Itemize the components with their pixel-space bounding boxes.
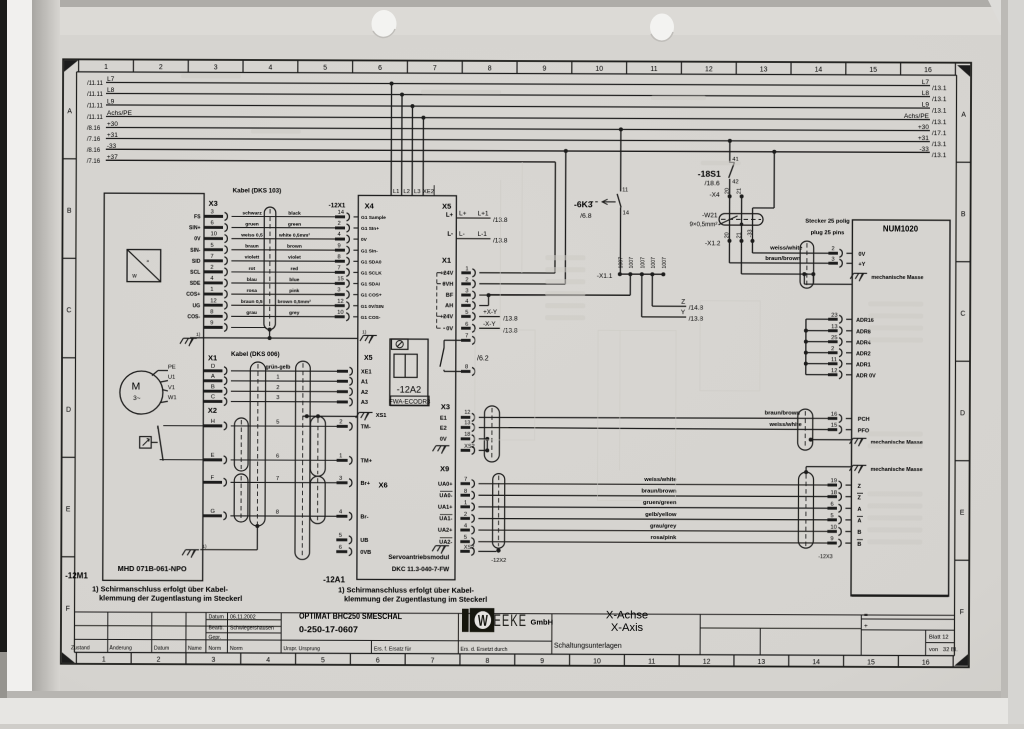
svg-text:/6.2: /6.2 — [477, 355, 489, 362]
wire X3 pin 12 braun 0,5 to X4 G1 0V/SIN — [193, 298, 385, 310]
mechanische Masse mid — [850, 438, 923, 446]
svg-text:2: 2 — [831, 246, 834, 252]
svg-text:/11.11: /11.11 — [87, 81, 103, 87]
svg-text:8: 8 — [465, 364, 468, 370]
pin X3 XS2 shield — [461, 439, 490, 455]
svg-text:L7: L7 — [922, 79, 930, 86]
cable screen X2 pair 1 — [234, 418, 248, 471]
wire BF junction to AH — [479, 293, 630, 306]
dashed link X1 pins — [437, 273, 446, 328]
svg-text:0-250-17-0607: 0-250-17-0607 — [299, 624, 358, 634]
svg-text:TM+: TM+ — [361, 458, 373, 464]
svg-text:AH: AH — [445, 303, 453, 309]
svg-text:/11.11: /11.11 — [87, 103, 103, 109]
equals plus cell — [864, 612, 868, 630]
svg-text:brown 0,5mm²: brown 0,5mm² — [278, 299, 312, 305]
svg-text:-12A1: -12A1 — [323, 575, 345, 584]
svg-text:violett: violett — [245, 255, 260, 261]
wire temp sensor to X2 H and E — [158, 426, 204, 460]
svg-text:M: M — [132, 381, 141, 393]
wire X2 F to servo Br+ — [203, 475, 371, 487]
pin X3.18 0V — [440, 432, 489, 443]
svg-text:Bearb.: Bearb. — [208, 625, 223, 631]
punch hole right — [650, 14, 674, 41]
cable screen at NUM PCH PFO — [798, 409, 852, 450]
svg-text:5: 5 — [210, 243, 213, 249]
svg-text:G1 SIn+: G1 SIn+ — [361, 226, 379, 232]
svg-text:Br-: Br- — [360, 514, 368, 520]
svg-text:6: 6 — [378, 65, 382, 72]
svg-text:XE1: XE1 — [361, 369, 372, 375]
svg-text:+30: +30 — [107, 121, 118, 128]
svg-text:XE2: XE2 — [423, 189, 434, 195]
cable screen at NUM pins 2 3 — [800, 241, 814, 288]
svg-text:9: 9 — [337, 243, 340, 249]
svg-text:G1 COS+: G1 COS+ — [361, 293, 382, 299]
wire X2 E to servo TM+ — [203, 453, 373, 465]
svg-text:/7.16: /7.16 — [87, 137, 101, 143]
svg-text:X4: X4 — [365, 201, 375, 210]
svg-text:4: 4 — [266, 657, 270, 664]
svg-text:1): 1) — [202, 544, 207, 550]
svg-text:-12M1: -12M1 — [65, 571, 88, 580]
svg-text:A3: A3 — [361, 400, 368, 406]
drawing frame outer border — [61, 59, 971, 667]
wire shield 21 to masse — [741, 241, 852, 284]
bus line +37 — [87, 154, 556, 167]
svg-text:16: 16 — [831, 412, 837, 418]
svg-text:G: G — [210, 509, 215, 515]
svg-text:X1: X1 — [208, 353, 217, 362]
svg-text:Ers. d. Ersetzt durch: Ers. d. Ersetzt durch — [460, 647, 507, 653]
sheet number Blatt 12 von 32 — [929, 635, 958, 654]
svg-text:1: 1 — [210, 287, 213, 293]
svg-text:XS2: XS2 — [464, 545, 475, 551]
svg-text:braun: braun — [245, 244, 259, 250]
svg-text:6: 6 — [376, 657, 380, 664]
svg-text:42: 42 — [732, 179, 738, 185]
svg-text:16: 16 — [924, 67, 932, 74]
svg-text:SIN+: SIN+ — [189, 225, 201, 231]
svg-text:C: C — [211, 394, 215, 400]
pin NUM 2 ADR2 — [804, 346, 871, 357]
svg-text:F: F — [960, 609, 964, 616]
svg-text:1): 1) — [362, 329, 367, 335]
svg-text:12: 12 — [210, 298, 216, 304]
svg-text:2: 2 — [157, 657, 161, 664]
svg-text:Kabel (DKS 103): Kabel (DKS 103) — [233, 187, 282, 194]
svg-text:7: 7 — [433, 65, 437, 72]
svg-text:13: 13 — [757, 659, 765, 666]
svg-text:5: 5 — [339, 533, 342, 539]
wire X2 G to servo Br- — [203, 509, 369, 521]
svg-text:L8: L8 — [922, 90, 930, 97]
svg-text:Schwiegershausen: Schwiegershausen — [230, 625, 274, 631]
svg-text:D: D — [211, 364, 215, 370]
svg-text:F: F — [66, 606, 70, 613]
svg-text:L+1: L+1 — [478, 210, 489, 217]
temperature sensor — [140, 426, 164, 461]
svg-text:0V: 0V — [440, 437, 447, 443]
terminal -X1.2 pins 20 21 -33 — [705, 196, 755, 247]
svg-text:/8.16: /8.16 — [87, 126, 101, 132]
ground X3 0V internal — [433, 446, 450, 454]
svg-text:7: 7 — [337, 265, 340, 271]
cable -W21 9x0,5mm2 — [689, 212, 763, 228]
svg-text:3: 3 — [276, 395, 279, 401]
svg-text:10: 10 — [337, 310, 343, 316]
svg-text:G1 0V/SIN: G1 0V/SIN — [361, 304, 384, 310]
pin NUM 15 PFO — [828, 423, 870, 435]
scan bleed-through artifacts — [474, 162, 760, 501]
title block — [74, 612, 954, 656]
svg-text:Z: Z — [681, 299, 685, 306]
svg-text:14: 14 — [812, 659, 820, 666]
svg-text:EEKE: EEKE — [493, 612, 527, 631]
wire X3 pin 3 schwarz to X4 G1 Sample — [194, 209, 386, 221]
svg-text:pink: pink — [289, 288, 299, 294]
svg-text:blue: blue — [289, 277, 299, 283]
pin X6.6 0VB — [336, 545, 371, 556]
svg-text:+30: +30 — [918, 124, 929, 131]
svg-text:10: 10 — [595, 66, 603, 73]
svg-text:-12X3: -12X3 — [818, 554, 832, 560]
svg-text:brown: brown — [287, 244, 302, 250]
svg-text:1007: 1007 — [662, 257, 668, 269]
motor M 3~ — [120, 371, 163, 414]
svg-text:klemmung der Zugentlastung im: klemmung der Zugentlastung im Steckerl — [344, 594, 487, 604]
svg-text:MHD 071B-061-NPO: MHD 071B-061-NPO — [118, 564, 187, 573]
svg-text:Stecker 25 polig: Stecker 25 polig — [805, 219, 850, 225]
svg-text:7: 7 — [431, 658, 435, 665]
svg-text:Änderung: Änderung — [109, 644, 132, 651]
svg-text:3: 3 — [337, 288, 340, 294]
wire motor PE lead — [152, 371, 168, 403]
svg-text:6: 6 — [276, 454, 279, 460]
svg-text:-12X2: -12X2 — [491, 558, 506, 564]
svg-text:/13.1: /13.1 — [932, 96, 947, 103]
svg-text:2: 2 — [831, 346, 834, 352]
svg-text:/13.1: /13.1 — [932, 108, 947, 115]
svg-text:UA1+: UA1+ — [438, 505, 453, 511]
column scale top 1-16 — [104, 64, 932, 74]
svg-text:1: 1 — [464, 500, 467, 506]
svg-text:2: 2 — [465, 277, 468, 283]
svg-text:A2: A2 — [361, 390, 368, 396]
pin X1.5 +24V — [440, 310, 475, 321]
svg-text:violet: violet — [288, 255, 301, 261]
pin NUM 3 +Y — [828, 257, 865, 268]
svg-text:6: 6 — [830, 502, 833, 508]
svg-text:5: 5 — [323, 65, 327, 72]
pin NUM 16 PCH — [828, 412, 870, 423]
svg-text:7: 7 — [210, 254, 213, 260]
svg-text:8: 8 — [337, 254, 340, 260]
svg-text:X-Achse: X-Achse — [606, 609, 648, 621]
wire X9 XS2 shield to cable screen — [460, 545, 496, 556]
svg-text:9: 9 — [210, 320, 213, 326]
svg-text:H: H — [211, 419, 215, 425]
svg-text:braun 0,5: braun 0,5 — [241, 299, 263, 305]
wire X9 pin 5 rosa/pink to NUM Bbar — [439, 534, 863, 547]
wire X3 pin 10 weiss 0,5 to X4 0V — [194, 231, 367, 243]
cable screen servo side pair 2 — [310, 476, 325, 523]
svg-text:11: 11 — [622, 187, 628, 193]
svg-text:Norm: Norm — [230, 646, 243, 652]
drawing number OPTIMAT BHC250 SMESCHAL — [299, 611, 403, 635]
svg-text:3: 3 — [211, 657, 215, 664]
svg-text:+37: +37 — [107, 154, 118, 161]
cable screen servo side long — [295, 361, 310, 559]
pin NUM 13 ADR8 — [804, 324, 871, 335]
svg-text:C: C — [960, 311, 965, 318]
svg-text:3: 3 — [214, 64, 218, 71]
wire L2 drop from bus — [400, 93, 404, 196]
contact -6K3 — [574, 127, 630, 274]
svg-text:9: 9 — [542, 66, 546, 73]
svg-text:-18S1: -18S1 — [698, 169, 721, 179]
svg-text:rosa/pink: rosa/pink — [651, 535, 678, 541]
pin X3.12 E1 wire braun/brown to NUM PCH — [440, 409, 828, 423]
bus line +31 — [87, 132, 947, 148]
svg-text:A: A — [857, 518, 861, 524]
pin NUM 11 ADR1 — [804, 357, 871, 368]
pin X3.13 E2 wire weiss/white to NUM PFO — [440, 420, 828, 433]
svg-text:Blatt 12: Blatt 12 — [929, 635, 949, 641]
wire L3 drop from bus — [410, 104, 414, 196]
svg-text:2: 2 — [210, 265, 213, 271]
svg-text:5: 5 — [276, 420, 279, 426]
svg-text:ADR 0V: ADR 0V — [856, 373, 876, 379]
svg-text:COS+: COS+ — [186, 292, 200, 298]
svg-text:PCH: PCH — [858, 417, 870, 423]
svg-text:+Y: +Y — [858, 262, 865, 268]
svg-text:gruen: gruen — [245, 221, 259, 227]
svg-text:11: 11 — [650, 66, 657, 73]
svg-text:1: 1 — [339, 453, 342, 459]
svg-text:+24V: +24V — [440, 271, 454, 277]
svg-text:1: 1 — [465, 266, 468, 272]
svg-text:2: 2 — [338, 221, 341, 227]
title X-Achse X-Axis — [606, 609, 648, 634]
svg-text:B: B — [67, 208, 72, 215]
svg-text:ADR8: ADR8 — [856, 329, 871, 335]
svg-text:TM-: TM- — [361, 424, 371, 430]
svg-text:18: 18 — [830, 490, 836, 496]
svg-text:6: 6 — [339, 545, 342, 551]
svg-text:FWA-ECODR3: FWA-ECODR3 — [389, 398, 431, 405]
svg-text:mechanische Masse: mechanische Masse — [871, 467, 923, 473]
svg-text:16: 16 — [922, 660, 930, 667]
svg-text:8: 8 — [488, 65, 492, 72]
pin X1.3 BF — [446, 288, 475, 299]
svg-text:Y: Y — [681, 309, 686, 316]
wire X3 pin 2 rot to X4 G1 SCLK — [190, 265, 382, 277]
svg-text:12: 12 — [703, 659, 711, 666]
svg-text:9×0,5mm²: 9×0,5mm² — [689, 221, 717, 228]
svg-text:-X1.1: -X1.1 — [597, 273, 613, 280]
svg-text:/6.8: /6.8 — [580, 213, 592, 220]
svg-text:D: D — [66, 407, 71, 414]
wire X9 pin 4 grau/grey to NUM B — [438, 523, 862, 536]
svg-text:G1 SCLK: G1 SCLK — [361, 270, 382, 276]
wire X2 H to servo TM- — [203, 419, 371, 431]
svg-text:green: green — [288, 222, 301, 228]
svg-text:-12X1: -12X1 — [329, 202, 346, 209]
svg-text:red: red — [291, 266, 299, 272]
svg-text:14: 14 — [623, 210, 630, 216]
svg-text:Urspr. Ursprung: Urspr. Ursprung — [283, 646, 320, 652]
address coding strap — [805, 319, 807, 374]
wire Z /14.8 — [652, 274, 703, 311]
pin NUM 12 ADR 0V — [806, 368, 876, 379]
svg-text:1007: 1007 — [629, 257, 635, 269]
svg-text:0V: 0V — [194, 236, 201, 242]
svg-text:PE: PE — [168, 365, 176, 371]
punch hole left — [372, 10, 397, 38]
svg-text:X3: X3 — [209, 199, 218, 208]
svg-text:12: 12 — [337, 299, 343, 305]
pin NUM 23 ADR16 — [806, 313, 874, 324]
svg-text:SDE: SDE — [190, 281, 201, 287]
wire X3 pin 8 grau to X4 G1 COS- — [187, 309, 380, 321]
svg-text:SIN-: SIN- — [190, 248, 201, 254]
svg-text:A1: A1 — [361, 379, 368, 385]
svg-text:A: A — [961, 112, 966, 119]
svg-text:1007: 1007 — [640, 257, 646, 269]
wire L1 drop from bus — [389, 82, 393, 196]
svg-text:X5: X5 — [364, 355, 373, 362]
net +X-Y /13.8 — [479, 309, 518, 323]
svg-text:0V: 0V — [858, 252, 865, 258]
svg-text:23: 23 — [831, 313, 837, 319]
svg-text:W: W — [478, 612, 488, 630]
svg-text:Achs/PE: Achs/PE — [904, 113, 930, 120]
svg-text:UB: UB — [360, 538, 368, 544]
svg-text:10: 10 — [593, 658, 601, 665]
svg-text:GmbH: GmbH — [530, 618, 553, 627]
bus line +30 — [87, 121, 947, 137]
pin X1.6 0V — [446, 322, 475, 333]
pin NUM 2 0V — [828, 246, 865, 258]
svg-text:D: D — [960, 410, 965, 417]
motor unit -12M1 MHD box — [103, 193, 204, 581]
svg-text:/7.16: /7.16 — [87, 159, 101, 165]
svg-text:braun/brown: braun/brown — [765, 256, 801, 262]
svg-text:7: 7 — [276, 476, 279, 482]
pin X1.4 AH — [445, 299, 475, 310]
pin X6.5 UB — [336, 533, 368, 544]
svg-text:white 0,5mm²: white 0,5mm² — [278, 233, 310, 239]
svg-text:/18.6: /18.6 — [705, 180, 720, 187]
svg-text:Ers. f. Ersatz für: Ers. f. Ersatz für — [374, 646, 411, 652]
svg-text:+: + — [864, 623, 868, 630]
pin X1.7 and X1.8 with switch /6.2 — [440, 333, 489, 375]
svg-text:3: 3 — [831, 257, 834, 263]
pin NUM 25 ADR4 — [804, 335, 871, 346]
title block header labels — [71, 614, 508, 653]
svg-text:/13.1: /13.1 — [932, 152, 947, 159]
svg-text:L9: L9 — [107, 98, 115, 105]
svg-text:3: 3 — [211, 209, 214, 215]
svg-text:E: E — [960, 510, 965, 517]
label Stecker 25 polig plug 25 pins — [805, 219, 850, 237]
wire +37 to servo X1 pin1 — [479, 162, 555, 273]
svg-text:15: 15 — [869, 67, 877, 74]
svg-text:10: 10 — [830, 525, 836, 531]
svg-text:L+: L+ — [459, 210, 467, 217]
svg-text:3: 3 — [339, 476, 342, 482]
shield line to servo XS1 — [303, 414, 358, 418]
svg-text:COS-: COS- — [187, 314, 200, 320]
footnote right — [338, 585, 487, 604]
svg-text:-X4: -X4 — [710, 192, 721, 199]
wire X3 pin 9 shield — [204, 320, 267, 331]
svg-text:F: F — [211, 475, 215, 481]
svg-text:8: 8 — [210, 309, 213, 315]
svg-text:G1 SDA0: G1 SDA0 — [361, 259, 382, 265]
svg-text:UG: UG — [193, 303, 201, 309]
svg-text:Datum: Datum — [209, 614, 224, 620]
cable screen DKS103 — [264, 207, 276, 338]
svg-text:1: 1 — [276, 374, 279, 380]
svg-text:L1: L1 — [393, 189, 400, 195]
svg-text:E1: E1 — [440, 416, 447, 422]
svg-text:/13.1: /13.1 — [932, 85, 947, 92]
svg-text:8: 8 — [485, 658, 489, 665]
svg-text:rot: rot — [249, 266, 256, 272]
ground at servo X4 shield — [360, 329, 377, 343]
servo drive -12A1 box — [357, 195, 457, 579]
svg-text:L-1: L-1 — [477, 231, 487, 238]
svg-text:21: 21 — [737, 188, 743, 194]
svg-text:1): 1) — [196, 332, 201, 338]
wire X9 pin 1 gruen/green to NUM A — [438, 499, 862, 512]
svg-text:3: 3 — [465, 289, 468, 295]
svg-text:L+: L+ — [446, 213, 454, 219]
svg-text:14: 14 — [338, 210, 345, 216]
svg-text:gruen/green: gruen/green — [643, 500, 677, 506]
svg-text:/14.8: /14.8 — [689, 305, 704, 312]
svg-text:9: 9 — [830, 536, 833, 542]
svg-text:6: 6 — [211, 220, 214, 226]
svg-text:+31: +31 — [107, 132, 118, 139]
ground XS1 servo — [356, 412, 387, 420]
svg-text:U1: U1 — [168, 375, 175, 381]
bus line Achs/PE — [87, 110, 947, 126]
svg-text:Br+: Br+ — [361, 481, 371, 487]
svg-text:A: A — [211, 374, 215, 380]
svg-text:/11.11: /11.11 — [87, 115, 103, 121]
svg-text:25: 25 — [831, 335, 837, 341]
svg-text:/11.11: /11.11 — [87, 92, 103, 98]
svg-text:-33: -33 — [919, 146, 929, 153]
bus line L8 — [87, 87, 947, 103]
svg-text:A: A — [857, 507, 861, 513]
svg-text:B: B — [961, 211, 966, 218]
svg-text:L-: L- — [447, 232, 453, 238]
net L- L-1 /13.8 — [447, 231, 508, 245]
ground X9 internal — [432, 546, 449, 554]
svg-text:8: 8 — [464, 489, 467, 495]
svg-text:X6: X6 — [379, 480, 388, 489]
svg-text:G1 Sample: G1 Sample — [361, 215, 386, 221]
wire X9 pin 2 gelb/yellow to NUM Abar — [439, 511, 863, 524]
resolver symbol — [127, 250, 161, 282]
svg-text:-33: -33 — [107, 143, 117, 150]
svg-text:5: 5 — [464, 535, 467, 541]
svg-text:-12A2: -12A2 — [397, 385, 422, 395]
